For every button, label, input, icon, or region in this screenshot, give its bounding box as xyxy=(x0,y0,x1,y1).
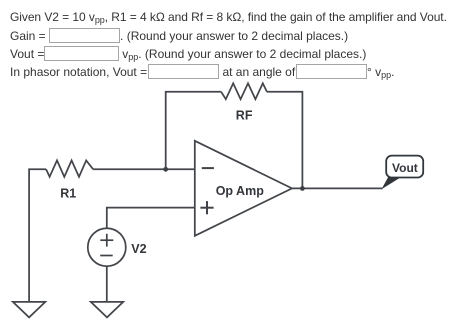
Vout flag box xyxy=(386,156,423,178)
wire V2 to ground xyxy=(106,266,108,302)
problem text line 3: Vout input xyxy=(10,46,366,61)
wire non-inverting input from V2 xyxy=(107,208,195,229)
wire feedback left vertical (node at inverting input up to RF) xyxy=(166,92,221,170)
resistor R1 xyxy=(46,160,93,176)
svg-text:R1: R1 xyxy=(60,186,76,200)
Vout flag tail xyxy=(382,177,403,190)
wire input left vertical to ground xyxy=(29,169,46,302)
V2 minus sign xyxy=(100,255,113,257)
problem text line 4: phasor inputs xyxy=(10,64,395,79)
V2 plus sign xyxy=(100,239,113,241)
op-amp non-inverting input plus sign xyxy=(200,207,213,209)
node junction dot at inverting input xyxy=(163,167,168,172)
problem text line 2: Gain input xyxy=(10,28,348,43)
svg-text:Vout: Vout xyxy=(392,161,418,175)
resistor RF xyxy=(221,83,267,99)
problem text line 1 xyxy=(10,10,447,24)
voltage source V2 circle xyxy=(88,228,126,266)
op-amp inverting input minus sign xyxy=(202,167,214,169)
svg-text:Op Amp: Op Amp xyxy=(216,184,265,198)
ground (left, R1 input) xyxy=(13,302,45,318)
svg-text:V2: V2 xyxy=(131,242,146,256)
node junction dot at output xyxy=(300,186,305,191)
wire output xyxy=(292,187,383,189)
op-amp U1 triangle xyxy=(195,141,292,236)
wire feedback right vertical (RF down to output node) xyxy=(267,92,303,189)
svg-text:RF: RF xyxy=(236,108,253,122)
wire R1 to inverting input xyxy=(93,168,195,170)
ground (below V2) xyxy=(91,302,123,318)
